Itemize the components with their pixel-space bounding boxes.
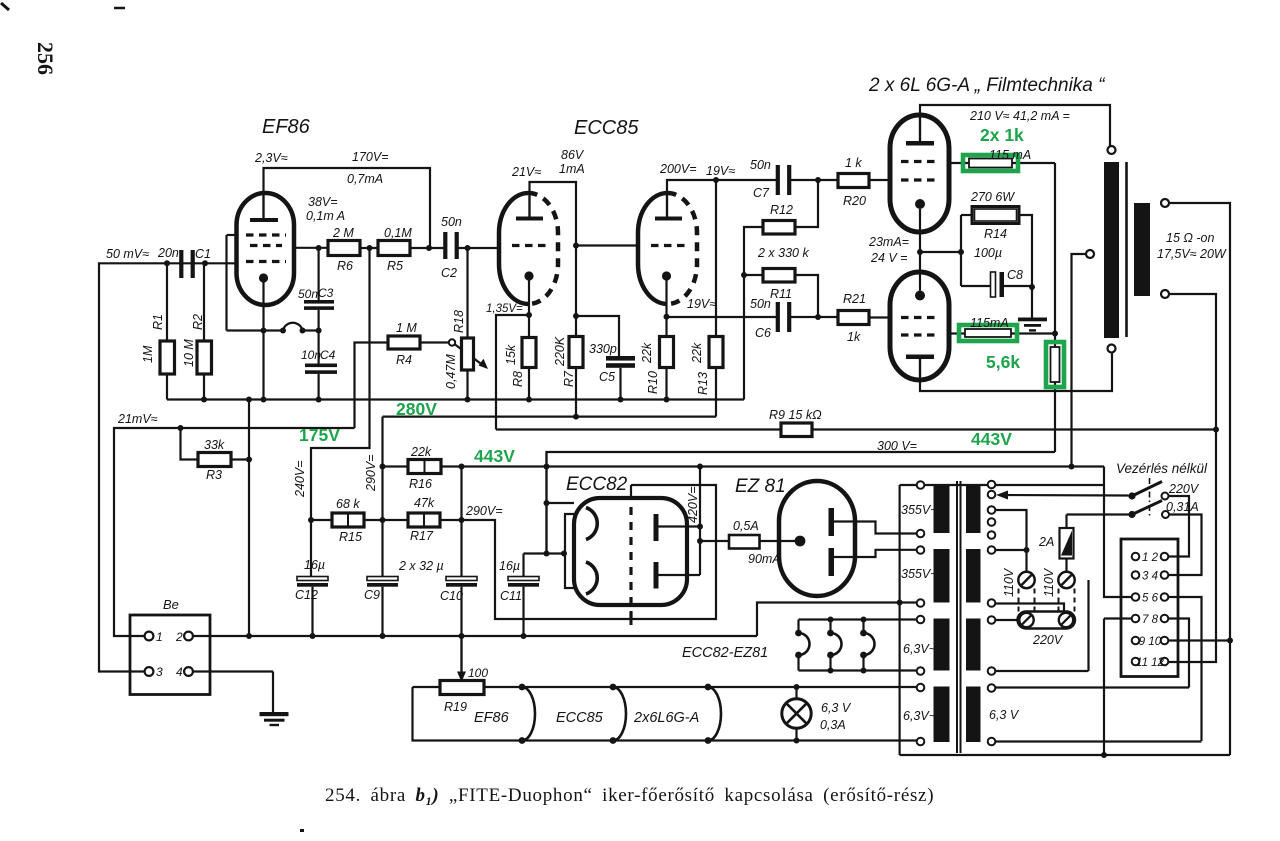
svg-text:C5: C5 bbox=[599, 370, 615, 384]
svg-text:170V=: 170V= bbox=[352, 150, 389, 164]
svg-text:1: 1 bbox=[156, 630, 163, 644]
svg-text:47k: 47k bbox=[414, 496, 435, 510]
svg-text:11 12: 11 12 bbox=[1136, 657, 1165, 669]
svg-text:220K: 220K bbox=[553, 336, 567, 367]
svg-text:R21: R21 bbox=[843, 292, 866, 306]
svg-text:290V=: 290V= bbox=[465, 504, 503, 518]
svg-text:R5: R5 bbox=[387, 259, 403, 273]
svg-text:280V: 280V bbox=[396, 399, 437, 419]
svg-text:R7: R7 bbox=[562, 370, 576, 387]
svg-text:R3: R3 bbox=[206, 468, 222, 482]
svg-text:C7: C7 bbox=[753, 186, 770, 200]
svg-text:23mA=: 23mA= bbox=[868, 235, 909, 249]
svg-text:2 x 330 k: 2 x 330 k bbox=[757, 246, 809, 260]
svg-text:15 Ω -on: 15 Ω -on bbox=[1166, 231, 1214, 245]
svg-text:15k: 15k bbox=[504, 344, 518, 365]
svg-text:C11: C11 bbox=[500, 589, 522, 603]
svg-text:21V≈: 21V≈ bbox=[511, 165, 541, 179]
svg-text:ECC85: ECC85 bbox=[556, 710, 604, 726]
svg-text:10 M: 10 M bbox=[182, 339, 196, 367]
svg-text:50n: 50n bbox=[750, 297, 771, 311]
svg-text:220V: 220V bbox=[1032, 633, 1064, 647]
svg-text:ECC82: ECC82 bbox=[566, 474, 628, 495]
svg-text:R19: R19 bbox=[444, 700, 467, 714]
svg-text:C10: C10 bbox=[440, 589, 463, 603]
svg-text:254. ábra b1) „FITE-Duophon: 254. ábra b1) „FITE-Duophon“ iker-főerős… bbox=[325, 785, 934, 808]
svg-text:1,35V=: 1,35V= bbox=[486, 303, 523, 315]
svg-text:50n: 50n bbox=[298, 287, 318, 301]
svg-text:R16: R16 bbox=[409, 477, 432, 491]
svg-text:R6: R6 bbox=[337, 259, 353, 273]
svg-text:443V: 443V bbox=[971, 429, 1012, 449]
svg-text:C6: C6 bbox=[755, 326, 771, 340]
svg-text:ECC82-EZ81: ECC82-EZ81 bbox=[682, 645, 768, 661]
svg-text:R10: R10 bbox=[646, 371, 660, 394]
svg-text:16µ: 16µ bbox=[499, 559, 520, 573]
svg-text:100: 100 bbox=[468, 666, 488, 680]
svg-text:17,5V≈ 20W: 17,5V≈ 20W bbox=[1157, 247, 1227, 261]
svg-text:16µ: 16µ bbox=[304, 558, 325, 572]
svg-text:2: 2 bbox=[175, 630, 183, 644]
svg-text:20n: 20n bbox=[157, 246, 179, 260]
svg-text:2x 1k: 2x 1k bbox=[980, 125, 1024, 145]
svg-text:EZ 81: EZ 81 bbox=[735, 476, 786, 497]
svg-text:355V~: 355V~ bbox=[901, 567, 938, 581]
svg-text:C1: C1 bbox=[195, 247, 211, 261]
svg-text:443V: 443V bbox=[474, 446, 515, 466]
svg-text:270 6W: 270 6W bbox=[970, 190, 1015, 204]
svg-text:6,3V~: 6,3V~ bbox=[903, 709, 936, 723]
svg-text:9 10: 9 10 bbox=[1139, 636, 1162, 648]
svg-text:256: 256 bbox=[33, 42, 58, 75]
svg-text:0,47M: 0,47M bbox=[444, 354, 458, 389]
svg-text:R12: R12 bbox=[770, 203, 793, 217]
svg-text:355V~: 355V~ bbox=[901, 503, 938, 517]
svg-text:6,3V~: 6,3V~ bbox=[903, 642, 936, 656]
svg-text:1mA: 1mA bbox=[559, 162, 585, 176]
svg-text:2,3V≈: 2,3V≈ bbox=[254, 151, 288, 165]
svg-text:R2: R2 bbox=[191, 314, 205, 330]
svg-text:R4: R4 bbox=[396, 353, 412, 367]
svg-text:EF86: EF86 bbox=[474, 710, 510, 726]
svg-text:33k: 33k bbox=[204, 438, 225, 452]
svg-text:210 V≈ 41,2 mA =: 210 V≈ 41,2 mA = bbox=[969, 109, 1070, 123]
svg-text:1k: 1k bbox=[847, 330, 861, 344]
svg-text:0,3A: 0,3A bbox=[820, 718, 846, 732]
svg-text:110V: 110V bbox=[1002, 567, 1016, 597]
svg-text:175V: 175V bbox=[299, 425, 340, 445]
svg-text:C8: C8 bbox=[1007, 268, 1023, 282]
svg-text:115 mA: 115 mA bbox=[989, 148, 1031, 162]
svg-text:R20: R20 bbox=[843, 194, 866, 208]
svg-text:110V: 110V bbox=[1042, 567, 1056, 597]
svg-text:R8: R8 bbox=[511, 371, 525, 387]
svg-text:90mA: 90mA bbox=[748, 552, 781, 566]
svg-text:Be: Be bbox=[163, 597, 179, 612]
svg-text:21mV≈: 21mV≈ bbox=[117, 412, 158, 426]
svg-text:ECC85: ECC85 bbox=[574, 117, 639, 139]
svg-text:1 M: 1 M bbox=[396, 321, 417, 335]
svg-text:10n: 10n bbox=[301, 348, 321, 362]
svg-text:200V=: 200V= bbox=[659, 162, 697, 176]
svg-text:1M: 1M bbox=[141, 345, 155, 363]
svg-text:2 M: 2 M bbox=[332, 226, 354, 240]
svg-text:24 V =: 24 V = bbox=[870, 251, 908, 265]
svg-text:4: 4 bbox=[176, 665, 183, 679]
svg-text:330p: 330p bbox=[589, 342, 617, 356]
svg-text:C3: C3 bbox=[318, 286, 334, 300]
svg-text:290V=: 290V= bbox=[364, 455, 378, 493]
svg-text:1 k: 1 k bbox=[845, 156, 862, 170]
svg-text:100µ: 100µ bbox=[974, 246, 1002, 260]
svg-text:86V: 86V bbox=[561, 148, 585, 162]
svg-text:2x6L6G-A: 2x6L6G-A bbox=[633, 710, 699, 726]
svg-text:0,1M: 0,1M bbox=[384, 226, 412, 240]
svg-text:19V≈: 19V≈ bbox=[687, 297, 716, 311]
svg-text:R9 15 kΩ: R9 15 kΩ bbox=[769, 408, 822, 422]
svg-text:19V≈: 19V≈ bbox=[706, 164, 735, 178]
svg-text:50n: 50n bbox=[441, 215, 462, 229]
svg-text:68 k: 68 k bbox=[336, 497, 360, 511]
svg-text:3: 3 bbox=[156, 665, 163, 679]
svg-text:2 x 6L 6G-A „ Filmtechnika “: 2 x 6L 6G-A „ Filmtechnika “ bbox=[868, 75, 1106, 96]
svg-text:R11: R11 bbox=[770, 287, 792, 301]
svg-text:50n: 50n bbox=[750, 158, 771, 172]
svg-text:C12: C12 bbox=[295, 588, 318, 602]
svg-text:0,7mA: 0,7mA bbox=[347, 172, 383, 186]
svg-text:6,3 V: 6,3 V bbox=[821, 701, 852, 715]
svg-text:38V=: 38V= bbox=[308, 195, 338, 209]
svg-text:C2: C2 bbox=[441, 266, 457, 280]
svg-text:7 8: 7 8 bbox=[1142, 614, 1159, 626]
svg-text:C9: C9 bbox=[364, 588, 380, 602]
svg-text:300 V=: 300 V= bbox=[877, 439, 917, 453]
svg-text:50 mV≈: 50 mV≈ bbox=[106, 247, 149, 261]
svg-text:5,6k: 5,6k bbox=[986, 352, 1020, 372]
svg-text:R18: R18 bbox=[452, 310, 466, 333]
svg-text:R1: R1 bbox=[151, 314, 165, 330]
svg-text:22k: 22k bbox=[410, 445, 432, 459]
svg-text:240V=: 240V= bbox=[293, 461, 307, 499]
svg-text:220V: 220V bbox=[1168, 482, 1200, 496]
svg-text:0,31A: 0,31A bbox=[1166, 500, 1199, 514]
svg-text:22k: 22k bbox=[640, 342, 654, 364]
svg-text:0,5A: 0,5A bbox=[733, 519, 759, 533]
svg-text:6,3 V: 6,3 V bbox=[989, 708, 1020, 722]
svg-text:115mA: 115mA bbox=[970, 316, 1009, 330]
svg-text:2 x 32 µ: 2 x 32 µ bbox=[398, 559, 444, 573]
svg-text:R15: R15 bbox=[339, 530, 362, 544]
svg-text:C4: C4 bbox=[320, 348, 336, 362]
svg-text:420V=: 420V= bbox=[686, 487, 700, 524]
svg-text:R14: R14 bbox=[984, 227, 1007, 241]
svg-text:Vezérlés nélkül: Vezérlés nélkül bbox=[1116, 461, 1208, 476]
svg-text:0,1m A: 0,1m A bbox=[306, 209, 345, 223]
svg-text:R13: R13 bbox=[696, 372, 710, 395]
svg-text:R17: R17 bbox=[410, 529, 434, 543]
svg-text:EF86: EF86 bbox=[262, 116, 311, 138]
svg-text:1 2: 1 2 bbox=[1142, 552, 1159, 564]
svg-text:3 4: 3 4 bbox=[1142, 571, 1158, 583]
svg-text:2A: 2A bbox=[1038, 535, 1054, 549]
svg-text:5 6: 5 6 bbox=[1142, 593, 1159, 605]
svg-text:22k: 22k bbox=[690, 342, 704, 364]
